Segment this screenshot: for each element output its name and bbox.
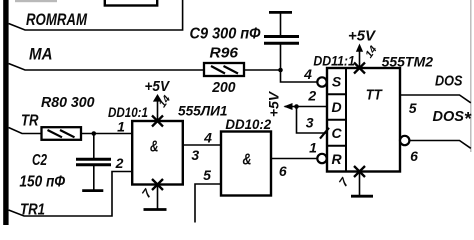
svg-text:4: 4 xyxy=(203,130,212,146)
svg-text:R: R xyxy=(331,151,342,167)
svg-text:200: 200 xyxy=(211,79,236,96)
svg-text:2: 2 xyxy=(115,155,124,171)
svg-text:R96: R96 xyxy=(210,46,239,62)
svg-text:DD11:1: DD11:1 xyxy=(313,53,355,68)
svg-text:R80 300: R80 300 xyxy=(41,94,95,111)
svg-text:5: 5 xyxy=(409,100,417,116)
svg-text:TR: TR xyxy=(21,113,39,130)
svg-text:TT: TT xyxy=(366,88,383,104)
svg-text:TR1: TR1 xyxy=(20,202,45,219)
svg-text:C9 300 пФ: C9 300 пФ xyxy=(190,26,262,43)
svg-text:3: 3 xyxy=(191,147,199,163)
svg-text:C2: C2 xyxy=(32,152,47,169)
svg-text:3: 3 xyxy=(306,115,314,131)
svg-text:6: 6 xyxy=(279,163,287,179)
svg-text:MA: MA xyxy=(29,46,53,64)
svg-text:D: D xyxy=(331,99,341,115)
svg-text:2: 2 xyxy=(307,88,316,104)
svg-text:4: 4 xyxy=(303,66,312,82)
svg-text:555ТМ2: 555ТМ2 xyxy=(382,55,434,70)
svg-text:&: & xyxy=(243,152,252,169)
svg-text:555ЛИ1: 555ЛИ1 xyxy=(178,104,228,119)
svg-text:S: S xyxy=(332,73,342,89)
svg-text:DD10:2: DD10:2 xyxy=(225,117,271,132)
svg-text:C: C xyxy=(331,125,342,141)
svg-text:6: 6 xyxy=(410,148,418,164)
svg-text:150 пФ: 150 пФ xyxy=(19,174,65,191)
svg-text:1: 1 xyxy=(309,140,317,156)
svg-text:5: 5 xyxy=(203,167,211,183)
svg-text:+5V: +5V xyxy=(266,90,282,117)
svg-text:DOS: DOS xyxy=(435,74,463,90)
svg-text:+5V: +5V xyxy=(145,79,171,95)
svg-text:+5V: +5V xyxy=(348,29,376,45)
svg-text:ROMRAM: ROMRAM xyxy=(26,11,88,29)
svg-text:&: & xyxy=(150,139,159,156)
svg-text:DD10:1: DD10:1 xyxy=(108,105,148,120)
svg-text:1: 1 xyxy=(117,119,125,135)
